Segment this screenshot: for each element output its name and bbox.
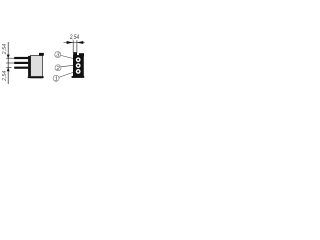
- horizontal dimension line (right view): [64, 42, 85, 44]
- vertical dimension line (left): [7, 42, 9, 84]
- extension line lead 3: [6, 67, 11, 69]
- extension line (screw right side): [76, 40, 78, 52]
- trimmer body (gray, side view): [31, 55, 43, 78]
- adjustment screw tab (top-right, side view): [39, 53, 44, 56]
- lead 2 (side view): [14, 62, 28, 64]
- bottom flange (front view): [72, 76, 85, 78]
- lead 1 (side view): [14, 57, 28, 59]
- dimension arrow right: [67, 41, 74, 44]
- pin number 1 (circled): [53, 75, 59, 82]
- pin number 3 (circled): [55, 52, 61, 59]
- extension line lead 1: [6, 57, 14, 59]
- dimension arrow up (to lead 3): [7, 68, 10, 72]
- pin hole 3 (white): [76, 57, 81, 62]
- dimension arrow left: [77, 41, 83, 44]
- pin hole 2 (white): [76, 63, 81, 68]
- svg-text:2,54: 2,54: [2, 44, 8, 56]
- extension line lead 2: [6, 62, 14, 64]
- leader line pin 1: [59, 72, 73, 77]
- extension line (screw left side): [72, 40, 74, 52]
- leader line pin 2: [61, 65, 73, 67]
- adjustment screw (top tab, front view): [73, 52, 77, 56]
- body top cap (front view): [73, 55, 84, 56]
- pin number 2 (circled): [55, 65, 61, 72]
- svg-text:2,54: 2,54: [69, 34, 79, 41]
- svg-text:1: 1: [55, 76, 58, 82]
- pin 3 center dot: [77, 59, 79, 61]
- pin 2 center dot: [77, 65, 79, 67]
- leader line pin 3: [61, 55, 73, 58]
- svg-text:2,54: 2,54: [2, 71, 8, 82]
- lead 3 (side view): [14, 67, 28, 69]
- trimmer body (front view, black): [73, 56, 84, 76]
- top-right ledge (front view): [79, 53, 84, 56]
- dimension arrow down (to lead 1): [7, 55, 10, 59]
- trimmer body front plate (black bar, side view): [28, 56, 31, 76]
- pin hole 1 (white): [76, 69, 81, 74]
- body bottom band (side view): [28, 76, 44, 78]
- pin 1 center dot: [77, 70, 79, 72]
